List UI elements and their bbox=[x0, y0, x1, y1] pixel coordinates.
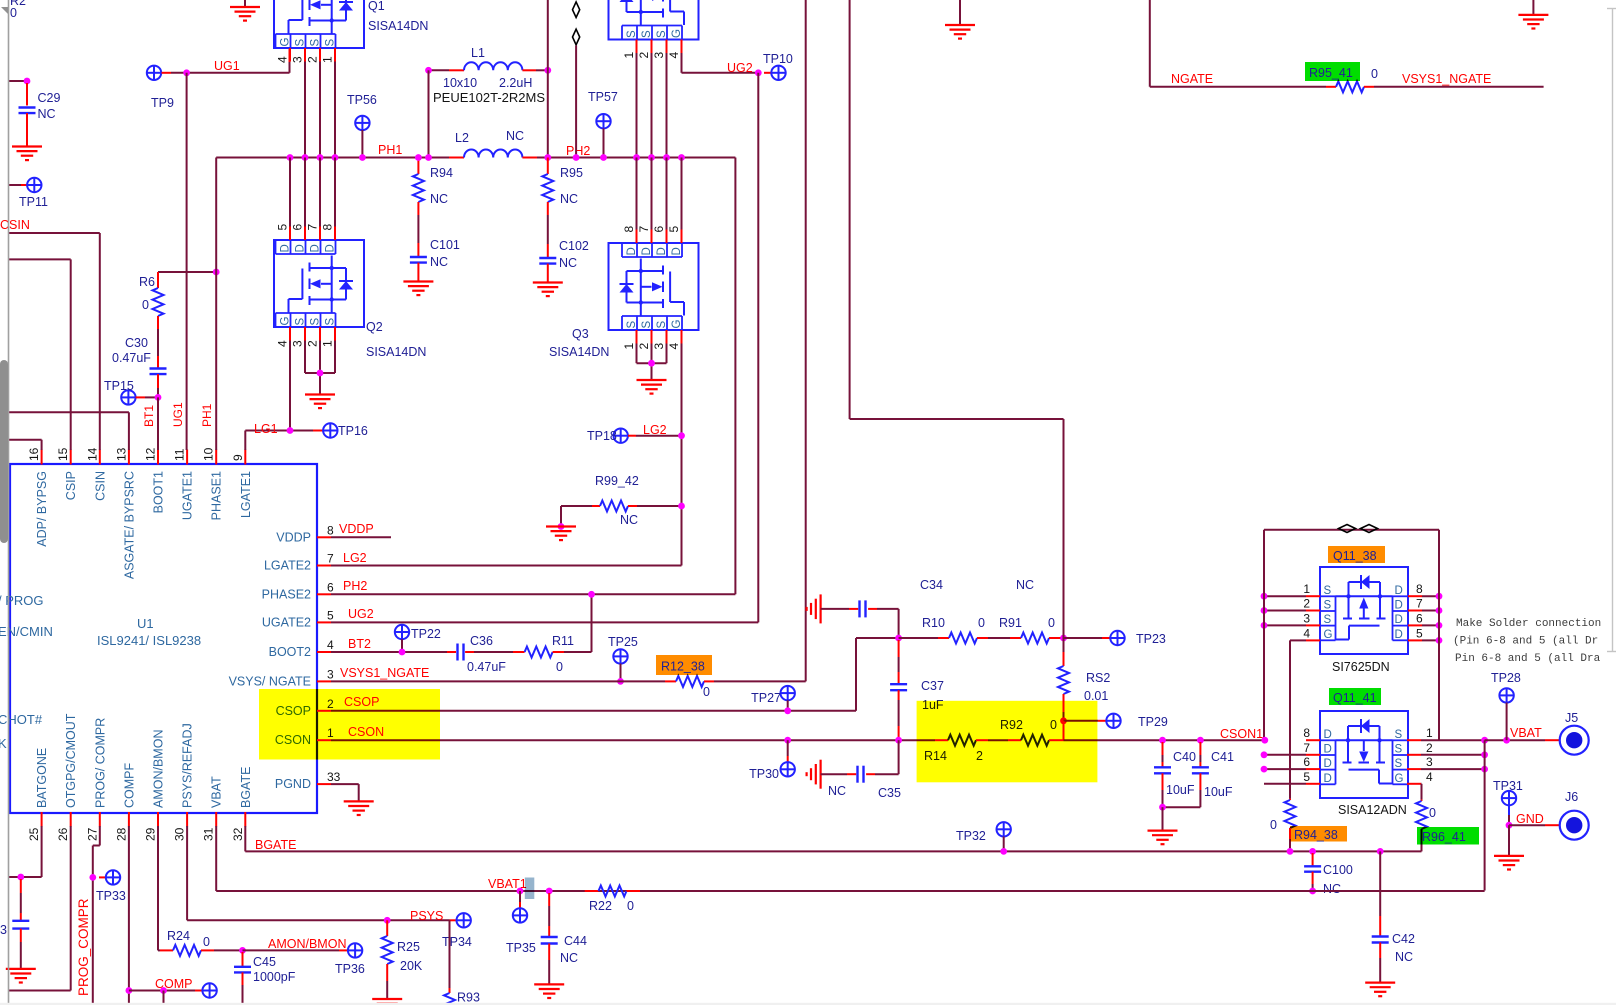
svg-text:20K: 20K bbox=[400, 959, 423, 973]
svg-text:1: 1 bbox=[321, 340, 335, 347]
U1 pin 9 LGATE1 bbox=[244, 450, 246, 465]
wire R10 row bbox=[899, 637, 938, 639]
svg-text:1: 1 bbox=[321, 56, 335, 63]
svg-text:C100: C100 bbox=[1323, 863, 1353, 877]
wire CSOP row bbox=[331, 710, 856, 712]
svg-text:NC: NC bbox=[620, 513, 638, 527]
ground C34 side bbox=[807, 594, 821, 623]
wire R99 gnd bbox=[560, 506, 562, 527]
svg-text:2: 2 bbox=[306, 56, 320, 63]
Q11_41 right pin 4 bbox=[1407, 783, 1421, 785]
svg-text:COMP: COMP bbox=[155, 977, 193, 991]
capacitor C41 10uF bbox=[1197, 737, 1204, 744]
wire Q1 S pins to PH1 bbox=[304, 62, 306, 158]
junction C40 gnd bbox=[1159, 804, 1166, 811]
resistor R11 bbox=[474, 651, 513, 653]
svg-text:6: 6 bbox=[327, 580, 334, 594]
wire Q11_41 D bus bbox=[1261, 737, 1268, 744]
wire LG1 bbox=[244, 431, 246, 451]
svg-text:L2: L2 bbox=[455, 131, 469, 145]
transistor Q2 SISA14DN bbox=[274, 240, 364, 327]
svg-text:0: 0 bbox=[627, 899, 634, 913]
ground R25 bbox=[372, 999, 402, 1005]
Q1 pin 3 bbox=[304, 48, 306, 62]
svg-text:8: 8 bbox=[1416, 582, 1423, 596]
wire Q11_41 S bus bbox=[1421, 739, 1439, 741]
svg-text:UG2: UG2 bbox=[727, 61, 753, 75]
Q2 top pin 5 bbox=[289, 227, 291, 241]
svg-text:R25: R25 bbox=[397, 940, 420, 954]
wire Q4 sources to PH2 bbox=[636, 53, 638, 158]
svg-text:C40: C40 bbox=[1173, 750, 1196, 764]
svg-text:PSYS/REFADJ: PSYS/REFADJ bbox=[181, 723, 195, 808]
svg-text:TP33: TP33 bbox=[96, 889, 126, 903]
svg-text:D: D bbox=[1395, 600, 1403, 612]
junction LG2 bbox=[678, 432, 685, 439]
svg-text:Q2: Q2 bbox=[366, 320, 383, 334]
Q11_38 left pin 4 bbox=[1306, 639, 1320, 641]
U1 pin 28 COMPF bbox=[128, 812, 130, 827]
svg-text:4: 4 bbox=[327, 638, 334, 652]
svg-text:TP10: TP10 bbox=[763, 52, 793, 66]
ground R99 bbox=[546, 527, 576, 541]
testpoint TP25 bbox=[613, 649, 627, 663]
svg-text:J5: J5 bbox=[1565, 711, 1578, 725]
Q2 bottom pin 2 bbox=[319, 327, 321, 341]
svg-text:NGATE: NGATE bbox=[1171, 72, 1213, 86]
junction Q2 source bbox=[317, 370, 324, 377]
testpoint TP30 bbox=[784, 737, 791, 744]
svg-text:G: G bbox=[280, 38, 292, 47]
testpoint TP57 bbox=[596, 114, 610, 128]
resistor R96_41 bbox=[1421, 800, 1423, 801]
svg-text:R95_41: R95_41 bbox=[1309, 66, 1353, 80]
ground C42 bbox=[1365, 983, 1395, 997]
wire R11 to PH2 bbox=[564, 651, 592, 653]
svg-text:VBAT: VBAT bbox=[1510, 726, 1542, 740]
svg-text:0: 0 bbox=[203, 935, 210, 949]
U1 pin 3 VSYS/ NGATE bbox=[317, 680, 331, 682]
Q4 pin 3 bbox=[666, 40, 668, 54]
resistor R95_41 bbox=[1326, 86, 1336, 88]
capacitor C35 NC bbox=[821, 773, 847, 775]
svg-text:TP30: TP30 bbox=[749, 767, 779, 781]
U1 pin 8 VDDP bbox=[317, 536, 331, 538]
svg-text:8: 8 bbox=[321, 224, 335, 231]
svg-text:R95: R95 bbox=[560, 166, 583, 180]
svg-text:TP31: TP31 bbox=[1493, 779, 1523, 793]
svg-text:27: 27 bbox=[85, 827, 99, 841]
svg-text:3: 3 bbox=[0, 923, 7, 937]
U1 pin 7 LGATE2 bbox=[317, 565, 331, 567]
svg-text:C102: C102 bbox=[559, 239, 589, 253]
svg-text:S: S bbox=[626, 321, 638, 329]
svg-text:TP15: TP15 bbox=[104, 379, 134, 393]
svg-text:L1: L1 bbox=[471, 46, 485, 60]
svg-text:D: D bbox=[1395, 614, 1403, 626]
svg-text:NC: NC bbox=[506, 129, 524, 143]
wire VSYS1_NGATE bbox=[1374, 86, 1544, 88]
ground C35 side bbox=[807, 760, 821, 789]
svg-text:J6: J6 bbox=[1565, 790, 1578, 804]
svg-text:5: 5 bbox=[327, 608, 334, 622]
svg-text:S: S bbox=[1395, 744, 1403, 756]
ground C43 bbox=[6, 969, 36, 983]
svg-text:S: S bbox=[656, 30, 668, 38]
capacitor C30 bbox=[157, 329, 159, 356]
Q11_38 left pin 3 bbox=[1306, 624, 1320, 626]
Q3 bottom pin 2 bbox=[651, 330, 653, 344]
svg-text:S: S bbox=[626, 30, 638, 38]
capacitor C43 bbox=[20, 879, 22, 893]
svg-text:7: 7 bbox=[637, 226, 651, 233]
wire AMON label bbox=[243, 949, 340, 951]
svg-text:NC: NC bbox=[1323, 882, 1341, 896]
U1 pin 14 CSIN bbox=[99, 450, 101, 465]
svg-text:2: 2 bbox=[1303, 597, 1310, 611]
svg-text:S: S bbox=[641, 30, 653, 38]
svg-text:11: 11 bbox=[173, 448, 187, 461]
svg-text:CSIP: CSIP bbox=[64, 471, 78, 500]
svg-text:G: G bbox=[1395, 773, 1404, 785]
Q2 bottom pin 4 bbox=[289, 327, 291, 341]
svg-text:NC: NC bbox=[560, 192, 578, 206]
svg-text:LG1: LG1 bbox=[254, 422, 278, 436]
svg-text:K: K bbox=[0, 736, 7, 751]
svg-text:1: 1 bbox=[622, 343, 636, 350]
Q2 bottom pin 3 bbox=[304, 327, 306, 341]
svg-text:D: D bbox=[1395, 585, 1403, 597]
svg-text:R94: R94 bbox=[430, 166, 453, 180]
svg-text:3: 3 bbox=[1426, 755, 1433, 769]
svg-text:D: D bbox=[641, 247, 653, 255]
svg-text:C29: C29 bbox=[38, 91, 61, 105]
wire pin28 down bbox=[128, 826, 130, 1005]
svg-text:S: S bbox=[1395, 729, 1403, 741]
svg-text:G: G bbox=[280, 317, 292, 326]
svg-text:7: 7 bbox=[306, 224, 320, 231]
testpoint TP9 bbox=[147, 66, 161, 80]
svg-text:33: 33 bbox=[327, 770, 341, 784]
junction R94 bbox=[415, 154, 422, 161]
svg-text:16: 16 bbox=[27, 447, 41, 461]
testpoint TP18 bbox=[614, 429, 628, 443]
svg-text:28: 28 bbox=[114, 827, 128, 841]
Q11_41 left pin 6 bbox=[1306, 768, 1320, 770]
wire CSIN bbox=[9, 232, 100, 234]
svg-text:TP16: TP16 bbox=[338, 424, 368, 438]
svg-text:CHOT#: CHOT# bbox=[0, 712, 43, 727]
svg-text:S: S bbox=[1324, 600, 1332, 612]
testpoint TP22 bbox=[395, 625, 409, 639]
svg-text:7: 7 bbox=[1303, 741, 1310, 755]
svg-text:3: 3 bbox=[652, 52, 666, 59]
svg-text:PEUE102T-2R2MS: PEUE102T-2R2MS bbox=[433, 90, 545, 105]
svg-text:BOOT1: BOOT1 bbox=[152, 471, 166, 513]
svg-text:TP32: TP32 bbox=[956, 829, 986, 843]
svg-text:NC: NC bbox=[38, 107, 56, 121]
testpoint TP35 bbox=[517, 888, 524, 895]
testpoint TP16 bbox=[323, 423, 337, 437]
svg-text:TP29: TP29 bbox=[1138, 715, 1168, 729]
U1 pin 32 BGATE bbox=[244, 812, 246, 827]
Q3 bottom pin 3 bbox=[666, 330, 668, 344]
capacitor C101 NC bbox=[417, 215, 419, 243]
wire CSON to right bbox=[1064, 739, 1265, 741]
resistor R93 bbox=[449, 988, 451, 993]
svg-text:3: 3 bbox=[652, 343, 666, 350]
wire VBAT right bbox=[1485, 739, 1545, 741]
svg-text:COMPF: COMPF bbox=[122, 763, 136, 809]
junction TP29 bbox=[1060, 717, 1067, 724]
svg-text:PROG_COMPR: PROG_COMPR bbox=[76, 898, 91, 996]
resistor R99_42 NC bbox=[561, 505, 592, 507]
svg-text:3: 3 bbox=[291, 56, 305, 63]
U1 pin 33 PGND bbox=[317, 783, 331, 785]
svg-text:4: 4 bbox=[1303, 626, 1310, 640]
svg-text:S: S bbox=[325, 39, 337, 47]
svg-text:OTGPG/CMOUT: OTGPG/CMOUT bbox=[64, 713, 78, 808]
wire ngate branch bbox=[849, 0, 851, 419]
highlight R95_41 bbox=[1305, 62, 1360, 81]
Q11_38 right pin 7 bbox=[1408, 610, 1422, 612]
resistor R22 bbox=[585, 890, 599, 892]
highlight R12_38 bbox=[656, 655, 712, 675]
wire phase vert bbox=[547, 0, 549, 158]
Q3 top pin 8 bbox=[636, 230, 638, 244]
Q3 top pin 6 bbox=[666, 230, 668, 244]
svg-text:R11: R11 bbox=[552, 634, 574, 648]
svg-text:BGATE: BGATE bbox=[255, 838, 296, 852]
highlight R14 R92 yellow bbox=[917, 701, 1098, 783]
resistor R12_38 bbox=[665, 680, 676, 682]
wire Q2 sources bbox=[304, 341, 306, 374]
junction R25 bbox=[384, 917, 391, 924]
connector J6 bbox=[1509, 824, 1545, 826]
svg-text:S: S bbox=[295, 318, 307, 326]
testpoint TP15 bbox=[121, 390, 135, 404]
svg-text:10x10: 10x10 bbox=[443, 76, 477, 90]
svg-text:PH1: PH1 bbox=[378, 143, 402, 157]
capacitor C37 1uF bbox=[898, 640, 900, 657]
svg-text:BGATE: BGATE bbox=[239, 767, 253, 808]
svg-text:BT1: BT1 bbox=[142, 405, 156, 427]
svg-text:13: 13 bbox=[114, 447, 128, 461]
svg-text:VDDP: VDDP bbox=[339, 522, 374, 536]
svg-text:NC: NC bbox=[828, 784, 846, 798]
svg-text:TP9: TP9 bbox=[151, 96, 174, 110]
ground Q2 bbox=[305, 395, 335, 409]
junction L1 right bbox=[544, 67, 551, 74]
U1 pin 12 BOOT1 bbox=[157, 450, 159, 465]
svg-text:PSYS: PSYS bbox=[410, 909, 443, 923]
svg-text:25: 25 bbox=[27, 827, 41, 841]
svg-text:BT2: BT2 bbox=[348, 637, 371, 651]
svg-text:C45: C45 bbox=[253, 955, 276, 969]
testpoint TP31 bbox=[1502, 791, 1516, 805]
ground C44 bbox=[534, 984, 564, 998]
svg-text:AMON/BMON: AMON/BMON bbox=[268, 937, 346, 951]
svg-text:SISA14DN: SISA14DN bbox=[368, 19, 428, 33]
highlight Q11_38 bbox=[1328, 546, 1385, 563]
svg-text:S: S bbox=[295, 39, 307, 47]
svg-text:1: 1 bbox=[1303, 582, 1310, 596]
wire R2 top left bbox=[9, 80, 27, 82]
svg-text:NC: NC bbox=[1016, 578, 1034, 592]
svg-text:G: G bbox=[1324, 629, 1333, 641]
svg-text:ASGATE/ BYPSRC: ASGATE/ BYPSRC bbox=[122, 471, 136, 579]
junction C29 bbox=[24, 78, 31, 85]
svg-text:31: 31 bbox=[202, 827, 216, 841]
junction PH1 bbox=[332, 154, 339, 161]
junction COMP bbox=[125, 987, 132, 994]
junction R91 right bbox=[1060, 637, 1064, 639]
svg-text:LGATE1: LGATE1 bbox=[239, 471, 253, 518]
svg-text:0: 0 bbox=[1371, 67, 1378, 81]
U1 pin 15 CSIP bbox=[70, 450, 72, 465]
testpoint TP33 bbox=[99, 876, 106, 878]
svg-text:C34: C34 bbox=[920, 578, 943, 592]
Q3 bottom pin 1 bbox=[636, 330, 638, 344]
svg-text:Pin 6-8 and 5 (all Dra: Pin 6-8 and 5 (all Dra bbox=[1455, 653, 1601, 665]
wire UG1 bbox=[162, 72, 172, 74]
Q11_41 left pin 7 bbox=[1306, 754, 1320, 756]
svg-text:TP11: TP11 bbox=[19, 195, 48, 209]
svg-text:0: 0 bbox=[142, 298, 149, 312]
svg-text:C36: C36 bbox=[470, 634, 493, 648]
Q4 pin 4 bbox=[681, 40, 683, 54]
svg-text:6: 6 bbox=[1303, 755, 1310, 769]
svg-text:10: 10 bbox=[202, 447, 216, 461]
U1 pin 11 UGATE1 bbox=[186, 450, 188, 465]
junction UG1 bbox=[183, 69, 190, 76]
svg-text:AMON/BMON: AMON/BMON bbox=[152, 730, 166, 808]
svg-text:PH2: PH2 bbox=[343, 579, 367, 593]
ui left edge bbox=[8, 0, 10, 1005]
junction C45 bbox=[239, 947, 246, 954]
resistor R10 bbox=[938, 637, 949, 639]
junction C43 bbox=[17, 874, 24, 881]
resistor R91 bbox=[988, 637, 1010, 639]
U1 pin 25 BATGONE bbox=[41, 812, 43, 827]
svg-text:S: S bbox=[325, 318, 337, 326]
svg-text:CSON1: CSON1 bbox=[1220, 727, 1263, 741]
svg-text:0: 0 bbox=[10, 6, 17, 20]
wire AMON bbox=[157, 826, 159, 950]
capacitor C44 NC bbox=[546, 888, 553, 895]
svg-text:D: D bbox=[671, 247, 683, 255]
transistor Q11_41 SISA12ADN bbox=[1320, 711, 1408, 798]
svg-text:CSIN: CSIN bbox=[93, 471, 107, 501]
Q3 top pin 7 bbox=[651, 230, 653, 244]
svg-text:1: 1 bbox=[1426, 726, 1433, 740]
Q1 pin 4 bbox=[289, 48, 291, 62]
wire PH2 row bbox=[537, 157, 735, 159]
svg-text:PH1: PH1 bbox=[200, 403, 214, 427]
Q2 top pin 8 bbox=[334, 227, 336, 241]
U1 pin 30 PSYS/REFADJ bbox=[186, 812, 188, 827]
svg-text:ISL9241/ ISL9238: ISL9241/ ISL9238 bbox=[97, 633, 201, 648]
svg-text:LGATE2: LGATE2 bbox=[264, 559, 311, 573]
capacitor C29 bbox=[26, 83, 28, 106]
svg-text:SI7625DN: SI7625DN bbox=[1332, 660, 1390, 674]
Q11_41 right pin 2 bbox=[1407, 754, 1421, 756]
inductor L2 NC bbox=[449, 157, 464, 159]
svg-text:D: D bbox=[280, 244, 292, 252]
svg-text:S: S bbox=[656, 321, 668, 329]
connector J5 bbox=[1545, 739, 1559, 741]
junction PH2 bbox=[633, 154, 640, 161]
testpoint TP11 bbox=[9, 184, 21, 186]
svg-text:S: S bbox=[1324, 585, 1332, 597]
svg-text:C44: C44 bbox=[564, 934, 587, 948]
testpoint COMP bbox=[202, 983, 216, 997]
junction UG2 bbox=[755, 69, 762, 76]
svg-text:PGND: PGND bbox=[275, 777, 311, 791]
resistor R92 bbox=[988, 739, 1008, 741]
svg-text:TP57: TP57 bbox=[588, 90, 618, 104]
svg-text:32: 32 bbox=[231, 827, 245, 841]
U1 pin 2 CSOP bbox=[317, 710, 331, 712]
ground PGND bbox=[344, 801, 374, 815]
ground top middle bbox=[959, 0, 961, 25]
svg-text:C37: C37 bbox=[921, 679, 944, 693]
svg-text:Q1: Q1 bbox=[368, 0, 385, 13]
Q11_38 left pin 1 bbox=[1306, 595, 1320, 597]
svg-text:2: 2 bbox=[306, 340, 320, 347]
svg-text:5: 5 bbox=[276, 224, 290, 231]
svg-text:D: D bbox=[295, 244, 307, 252]
svg-text:2: 2 bbox=[1426, 741, 1433, 755]
junction PH1 bbox=[287, 154, 294, 161]
Q1 pin 2 bbox=[319, 48, 321, 62]
Q1 pin 1 bbox=[334, 48, 336, 62]
U1 pin 29 AMON/BMON bbox=[157, 812, 159, 827]
wire BT1 to pin12 bbox=[157, 397, 159, 450]
wire pin16 bbox=[9, 439, 42, 441]
testpoint TP34 bbox=[450, 919, 457, 921]
wire VSYS row bbox=[331, 680, 665, 682]
svg-text:8: 8 bbox=[1303, 726, 1310, 740]
wire BT2 row bbox=[331, 651, 447, 653]
capacitor C102 NC bbox=[547, 215, 549, 244]
svg-text:UG2: UG2 bbox=[348, 607, 374, 621]
capacitor C42 NC bbox=[1377, 848, 1384, 855]
svg-text:TP56: TP56 bbox=[347, 93, 377, 107]
svg-text:3: 3 bbox=[327, 667, 334, 681]
svg-text:TP25: TP25 bbox=[608, 635, 638, 649]
transistor Q4 bbox=[609, 0, 699, 40]
svg-text:R99_42: R99_42 bbox=[595, 474, 639, 488]
svg-text:Q11_38: Q11_38 bbox=[1333, 549, 1377, 563]
svg-text:0: 0 bbox=[703, 685, 710, 699]
U1 pin 10 PHASE1 bbox=[215, 450, 217, 465]
svg-text:SISA12ADN: SISA12ADN bbox=[1338, 803, 1407, 817]
wire Q3 gate LG2 bbox=[681, 344, 683, 566]
ground C102 bbox=[533, 283, 563, 297]
Q11_38 right pin 6 bbox=[1408, 624, 1422, 626]
wire PSYS bbox=[186, 826, 188, 920]
junction COMP2 bbox=[160, 987, 167, 994]
svg-text:PHASE2: PHASE2 bbox=[262, 587, 311, 601]
capacitor C40 10uF bbox=[1159, 737, 1166, 744]
svg-text:SISA14DN: SISA14DN bbox=[366, 345, 426, 359]
highlight VBAT1 selection bbox=[525, 878, 535, 900]
ic U1 body bbox=[10, 464, 317, 813]
svg-text:0: 0 bbox=[1270, 818, 1277, 832]
svg-text:R93: R93 bbox=[457, 991, 480, 1005]
junction PH2 bbox=[663, 154, 670, 161]
